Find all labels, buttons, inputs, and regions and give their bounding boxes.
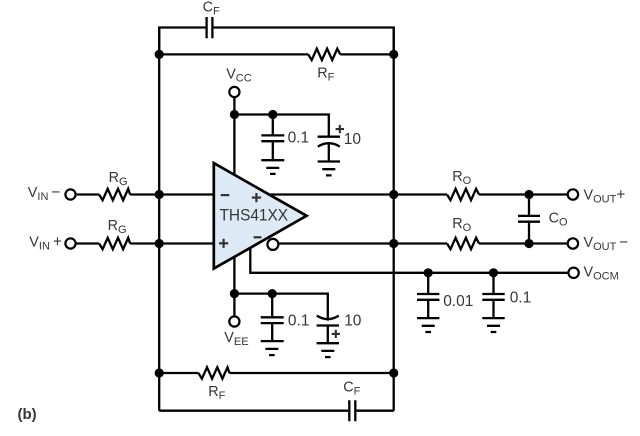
capacitor 0.01 (VOCM) [417,294,439,300]
svg-text:VIN +: VIN + [29,233,62,252]
wire VCC to op-amp [233,97,235,175]
terminal VIN- [65,189,75,199]
terminal VOCM [568,268,578,278]
svg-text:RG: RG [108,218,127,236]
svg-text:RF: RF [317,66,334,84]
inversion bubble output- [267,239,278,250]
node VIN- bus junction [155,190,164,199]
label plus VEE cap [332,330,340,338]
wire left bus [158,28,160,411]
label minus input [221,194,230,196]
wire top CF feedback row [159,28,394,55]
svg-text:VEE: VEE [224,330,248,348]
node output- CO junction [524,239,533,248]
svg-text:0.1: 0.1 [288,129,310,146]
terminal VCC [229,87,239,97]
capacitor CF (bottom) [349,400,355,421]
svg-text:(b): (b) [18,406,37,423]
capacitor 10 electrolytic (VEE) [317,316,339,326]
resistor RF (bottom) [198,367,229,378]
svg-text:RO: RO [452,169,471,187]
resistor RG (top) [99,189,130,200]
wire VIN+ row [75,242,213,244]
capacitor CO [518,216,540,222]
wire VCC 10 to ground [328,144,330,162]
svg-text:VOUT −: VOUT − [584,234,629,253]
node VOCM 0.1 junction [489,268,498,277]
ground VOCM 0.1 [482,318,504,332]
svg-text:0.1: 0.1 [510,290,532,307]
node left-RF junction [155,50,164,59]
node RF bottom right junction [389,368,398,377]
wire VEE 10 to ground [327,326,329,344]
wire output- row [279,242,568,244]
svg-text:VCC: VCC [226,66,252,84]
terminal VOUT+ [568,189,578,199]
label minus output [254,236,262,238]
ground VEE 10 [317,343,339,357]
resistor RF (top) [308,49,340,60]
label plus input [219,239,228,248]
wire output+ row [269,193,568,195]
svg-text:RO: RO [452,216,471,234]
capacitor 0.1 (VEE) [261,317,284,323]
wire CO branch [528,195,530,244]
wire bottom CF row [159,410,394,412]
node VEE rail junction [230,289,239,298]
capacitor 0.1 (VCC) [261,135,284,141]
label plus output [252,193,261,202]
wire VEE decoupling rail [234,294,327,321]
wire VOCM 0.01 branch [427,273,429,318]
ground VCC 10 [318,162,340,176]
node VIN+ bus junction [155,239,164,248]
ground VEE 0.1 [261,341,284,355]
svg-text:0.01: 0.01 [443,293,473,310]
svg-text:RF: RF [208,384,225,402]
wire VOCM from op-amp [250,248,568,273]
svg-text:VOUT+: VOUT+ [584,187,626,206]
wire VCC 0.1 branch [272,115,274,161]
capacitor 0.1 (VOCM) [482,294,504,300]
wire VEE 0.1 branch [271,294,273,342]
node VOCM 0.01 junction [424,268,433,277]
terminal VOUT- [568,238,578,248]
svg-text:VIN −: VIN − [28,184,61,203]
wire RF bottom row [159,372,394,374]
wire VIN- row [75,193,213,195]
wire VEE from op-amp [233,257,235,317]
resistor RO (top) [447,189,479,200]
terminal VIN+ [65,238,75,248]
wire VCC decoupling rail [234,115,328,137]
terminal VEE [229,316,239,326]
op-amp U1 THS41XX triangle [214,163,307,269]
node RF bottom left junction [155,368,164,377]
wire RF top row [159,53,394,55]
svg-text:VOCM: VOCM [584,264,619,282]
svg-text:CF: CF [343,380,360,398]
svg-text:THS41XX: THS41XX [220,206,289,225]
node output+ CO junction [524,190,533,199]
resistor RO (bottom) [447,238,479,249]
capacitor 10 electrolytic (VCC) [318,137,340,147]
ground VOCM 0.01 [417,318,439,332]
node right-RF junction [389,50,398,59]
svg-text:0.1: 0.1 [288,313,310,330]
capacitor CF (top) [207,17,213,38]
svg-text:10: 10 [344,131,362,148]
svg-text:10: 10 [344,313,362,330]
wire right bus [393,28,395,411]
svg-text:CF: CF [203,0,220,18]
ground VCC 0.1 [261,160,284,174]
node VCC rail junction [230,110,239,119]
label plus VCC cap [336,125,344,133]
wire VOCM 0.1 branch [492,273,494,318]
svg-text:RG: RG [109,170,128,188]
resistor RG (bottom) [99,238,130,249]
node output+ bus junction [389,190,398,199]
node VCC 0.1 junction [268,110,277,119]
svg-text:CO: CO [549,210,568,228]
node output- bus junction [389,239,398,248]
node VEE 0.1 junction [268,289,277,298]
